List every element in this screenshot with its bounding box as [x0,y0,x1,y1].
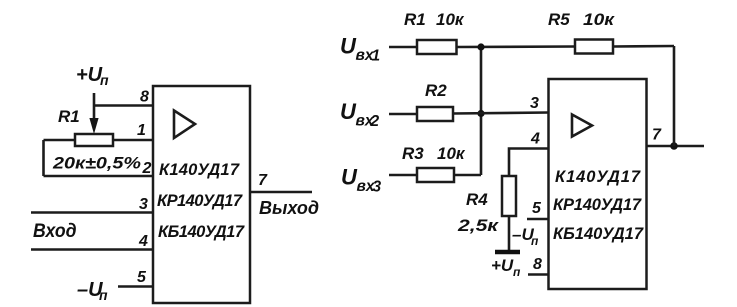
svg-text:КБ140УД17: КБ140УД17 [553,225,644,243]
svg-text:3: 3 [530,95,539,112]
svg-text:U: U [340,99,357,124]
svg-text:К140УД17: К140УД17 [159,161,240,179]
svg-text:Вход: Вход [33,221,77,242]
svg-text:R1: R1 [404,10,426,29]
svg-text:3: 3 [373,179,382,196]
svg-text:КР140УД17: КР140УД17 [157,192,243,210]
svg-text:20к±0,5%: 20к±0,5% [52,154,141,173]
svg-text:10к: 10к [436,10,465,29]
svg-text:2: 2 [142,160,152,177]
svg-text:U: U [340,34,357,59]
svg-text:R3: R3 [402,144,424,163]
svg-text:10к: 10к [583,10,616,29]
svg-text:5: 5 [137,269,147,286]
svg-text:8: 8 [140,89,149,106]
svg-text:1: 1 [372,48,381,65]
svg-text:R2: R2 [425,81,447,100]
svg-text:4: 4 [138,233,148,250]
svg-text:R4: R4 [466,190,488,209]
svg-text:3: 3 [139,196,148,213]
svg-text:10к: 10к [437,144,466,163]
svg-text:7: 7 [652,127,662,144]
svg-text:Выход: Выход [259,198,319,218]
svg-text:п: п [513,265,521,279]
svg-text:1: 1 [137,122,146,139]
svg-text:U: U [341,165,358,190]
svg-text:КР140УД17: КР140УД17 [553,196,642,214]
svg-text:п: п [531,234,539,248]
svg-text:8: 8 [533,256,542,273]
svg-text:7: 7 [258,172,268,189]
svg-text:КБ140УД17: КБ140УД17 [158,223,245,241]
svg-text:R5: R5 [548,10,570,29]
svg-text:п: п [100,72,109,88]
svg-text:+U: +U [491,256,514,275]
svg-text:4: 4 [530,131,540,148]
svg-text:5: 5 [532,200,542,217]
svg-text:2,5к: 2,5к [457,216,500,235]
svg-text:К140УД17: К140УД17 [555,168,641,186]
svg-text:п: п [99,287,108,303]
svg-text:R1: R1 [58,107,80,126]
svg-text:+U: +U [76,64,103,86]
svg-text:2: 2 [370,113,380,130]
